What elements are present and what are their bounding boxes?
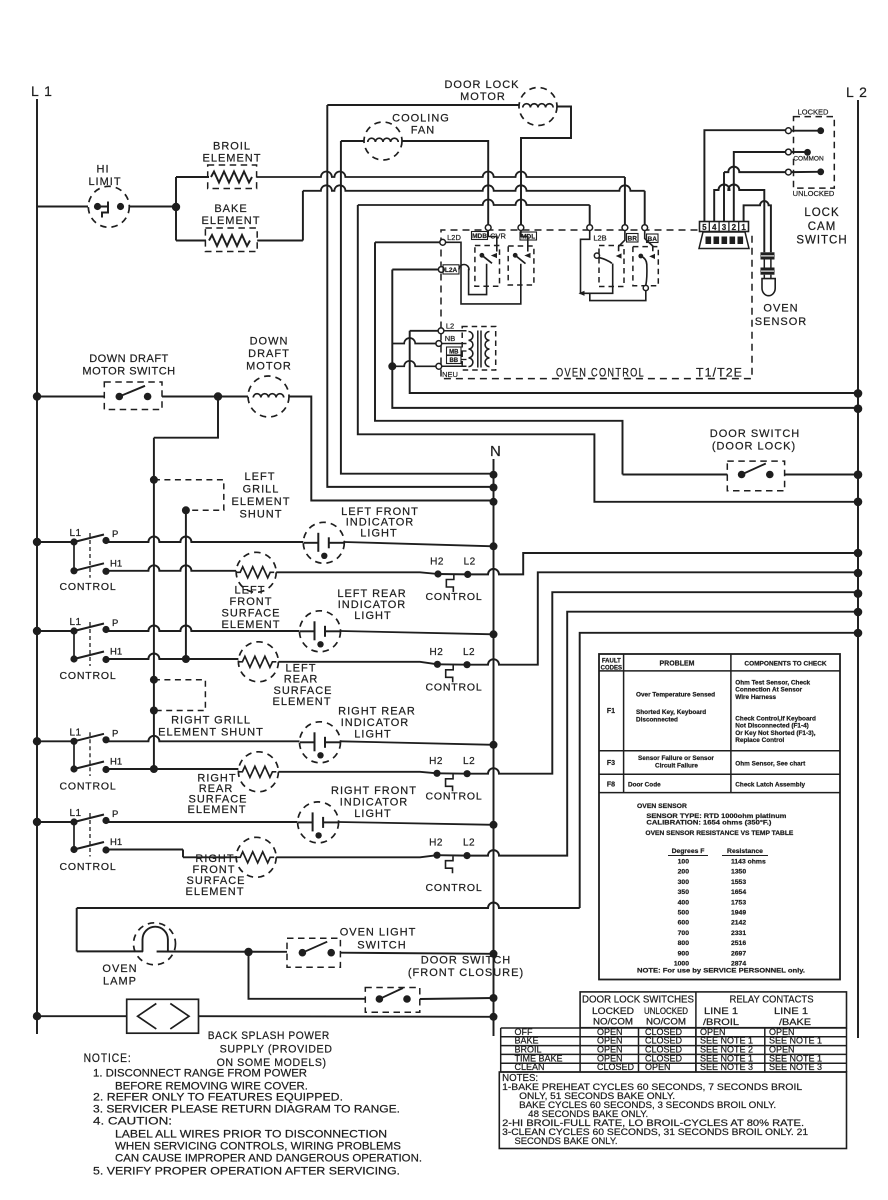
- svg-text:Door Code: Door Code: [628, 782, 661, 789]
- svg-text:MOTOR: MOTOR: [246, 361, 292, 373]
- svg-text:Wire Harness: Wire Harness: [735, 694, 776, 701]
- svg-text:Replace Control: Replace Control: [735, 737, 784, 744]
- svg-text:H1: H1: [110, 647, 122, 658]
- svg-text:NOTE: For use by SERVICE PERS: NOTE: For use by SERVICE PERSONNEL only.: [637, 968, 805, 975]
- svg-text:Check Control,if Keyboard: Check Control,if Keyboard: [735, 715, 816, 722]
- svg-text:LAMP: LAMP: [103, 976, 137, 988]
- svg-text:ELEMENT: ELEMENT: [232, 496, 291, 508]
- svg-text:CONTROL: CONTROL: [60, 780, 117, 792]
- svg-text:UNLOCKED: UNLOCKED: [793, 189, 835, 198]
- svg-text:ELEMENT: ELEMENT: [202, 215, 261, 227]
- svg-text:RIGHT FRONT: RIGHT FRONT: [331, 785, 417, 797]
- svg-text:CONTROL: CONTROL: [426, 882, 483, 894]
- svg-text:COMMON: COMMON: [793, 156, 824, 163]
- svg-text:LEFT: LEFT: [245, 471, 276, 483]
- svg-text:1: 1: [741, 223, 746, 232]
- svg-text:L2B: L2B: [593, 234, 606, 243]
- svg-text:BAKE: BAKE: [214, 203, 247, 215]
- svg-text:1350: 1350: [731, 869, 746, 876]
- svg-text:L2: L2: [464, 557, 476, 568]
- svg-text:1753: 1753: [731, 899, 746, 906]
- svg-text:700: 700: [678, 930, 690, 937]
- svg-text:DOOR LOCK SWITCHES: DOOR LOCK SWITCHES: [582, 995, 694, 1006]
- svg-text:LABEL ALL WIRES PRIOR TO DISCO: LABEL ALL WIRES PRIOR TO DISCONNECTION: [115, 1129, 387, 1141]
- svg-text:OVEN: OVEN: [102, 963, 137, 975]
- svg-text:1. DISCONNECT RANGE FROM POWER: 1. DISCONNECT RANGE FROM POWER: [93, 1068, 307, 1080]
- svg-text:4. CAUTION:: 4. CAUTION:: [93, 1116, 172, 1128]
- svg-text:DOWN DRAFT: DOWN DRAFT: [89, 353, 169, 365]
- svg-text:SHUNT: SHUNT: [240, 509, 283, 521]
- svg-text:DOOR SWITCH: DOOR SWITCH: [710, 428, 800, 440]
- svg-text:Resistance: Resistance: [727, 848, 763, 855]
- svg-text:SEE NOTE 3: SEE NOTE 3: [700, 1062, 753, 1072]
- svg-text:Or Key Not Shorted (F1-3),: Or Key Not Shorted (F1-3),: [735, 730, 815, 737]
- svg-text:L 1: L 1: [31, 83, 53, 99]
- svg-text:F8: F8: [607, 782, 615, 789]
- svg-text:CONTROL: CONTROL: [60, 861, 117, 873]
- svg-text:N: N: [490, 443, 501, 460]
- svg-text:LOCKED: LOCKED: [592, 1006, 635, 1016]
- svg-text:P: P: [112, 618, 118, 629]
- svg-text:CODES: CODES: [601, 665, 622, 671]
- svg-text:2142: 2142: [731, 920, 746, 927]
- svg-text:L2: L2: [446, 322, 454, 331]
- svg-text:/BAKE: /BAKE: [779, 1017, 811, 1027]
- svg-text:Not Disconnected (F1-4): Not Disconnected (F1-4): [735, 723, 809, 730]
- svg-text:F1: F1: [607, 708, 615, 715]
- svg-text:SUPPLY (PROVIDED: SUPPLY (PROVIDED: [220, 1044, 333, 1056]
- svg-text:LIMIT: LIMIT: [88, 176, 121, 188]
- svg-text:P: P: [112, 529, 118, 540]
- svg-text:COOLING: COOLING: [392, 113, 450, 125]
- svg-text:L2D: L2D: [447, 233, 461, 242]
- svg-text:NOTICE:: NOTICE:: [84, 1053, 132, 1065]
- svg-text:UNLOCKED: UNLOCKED: [644, 1006, 688, 1016]
- svg-text:H2: H2: [430, 647, 444, 658]
- svg-text:P: P: [112, 809, 118, 820]
- svg-text:Circuit Failure: Circuit Failure: [655, 762, 698, 769]
- svg-text:(DOOR LOCK): (DOOR LOCK): [712, 441, 796, 453]
- svg-text:NEU: NEU: [442, 370, 458, 379]
- svg-text:LEFT: LEFT: [235, 585, 266, 597]
- svg-text:ELEMENT: ELEMENT: [222, 619, 281, 631]
- svg-text:1654: 1654: [731, 889, 746, 896]
- svg-text:LIGHT: LIGHT: [360, 528, 397, 540]
- svg-text:NB: NB: [445, 334, 455, 343]
- svg-text:600: 600: [678, 920, 690, 927]
- svg-text:RIGHT REAR: RIGHT REAR: [338, 706, 416, 718]
- svg-text:350: 350: [678, 889, 690, 896]
- svg-text:PROBLEM: PROBLEM: [660, 661, 695, 668]
- svg-text:4: 4: [712, 223, 717, 232]
- svg-text:NO/COM: NO/COM: [593, 1017, 633, 1027]
- svg-text:L2: L2: [463, 838, 475, 849]
- svg-text:H1: H1: [110, 558, 122, 569]
- svg-text:LIGHT: LIGHT: [354, 610, 391, 622]
- svg-text:Degrees F: Degrees F: [672, 848, 705, 855]
- svg-text:LOCKED: LOCKED: [798, 108, 829, 117]
- svg-text:1000: 1000: [674, 961, 689, 968]
- svg-text:L1: L1: [70, 617, 82, 628]
- svg-text:INDICATOR: INDICATOR: [341, 717, 410, 729]
- svg-text:LIGHT: LIGHT: [354, 808, 391, 820]
- svg-text:Sensor Failure or Sensor: Sensor Failure or Sensor: [638, 755, 715, 762]
- svg-text:H1: H1: [110, 757, 122, 768]
- svg-text:L1: L1: [70, 528, 82, 539]
- svg-text:SECONDS BAKE ONLY.: SECONDS BAKE ONLY.: [515, 1136, 618, 1147]
- svg-text:L1: L1: [70, 727, 82, 738]
- svg-text:2. REFER ONLY TO FEATURES EQUI: 2. REFER ONLY TO FEATURES EQUIPPED.: [93, 1092, 343, 1104]
- svg-text:CONTROL: CONTROL: [426, 681, 483, 693]
- svg-text:ELEMENT: ELEMENT: [186, 886, 245, 898]
- svg-text:2331: 2331: [731, 930, 746, 937]
- svg-text:WHEN SERVICING CONTROLS, WIRIN: WHEN SERVICING CONTROLS, WIRING PROBLEMS: [115, 1141, 401, 1153]
- svg-text:2874: 2874: [731, 961, 746, 968]
- svg-text:LIGHT: LIGHT: [354, 729, 391, 741]
- svg-text:NO/COM: NO/COM: [646, 1017, 686, 1027]
- svg-text:F3: F3: [607, 760, 615, 767]
- svg-text:HI: HI: [97, 164, 110, 176]
- svg-text:Connection At Sensor: Connection At Sensor: [735, 687, 802, 694]
- svg-text:2516: 2516: [731, 940, 746, 947]
- svg-text:5: 5: [702, 223, 707, 232]
- svg-text:MOTOR: MOTOR: [460, 91, 506, 103]
- svg-text:CLOSED: CLOSED: [597, 1062, 635, 1072]
- svg-text:ELEMENT: ELEMENT: [203, 153, 262, 165]
- svg-text:900: 900: [678, 950, 690, 957]
- svg-text:L2: L2: [463, 756, 475, 767]
- svg-text:COMPONENTS TO CHECK: COMPONENTS TO CHECK: [744, 661, 827, 668]
- svg-text:CONTROL: CONTROL: [60, 581, 117, 593]
- svg-text:T1/T2E: T1/T2E: [696, 368, 743, 380]
- svg-text:GRILL: GRILL: [243, 484, 280, 496]
- svg-text:OVEN SENSOR: OVEN SENSOR: [637, 803, 687, 810]
- svg-text:1553: 1553: [731, 879, 746, 886]
- svg-text:OVEN: OVEN: [763, 303, 798, 315]
- svg-text:Check Latch Assembly: Check Latch Assembly: [735, 782, 805, 789]
- svg-text:H1: H1: [110, 837, 122, 848]
- svg-text:SENSOR: SENSOR: [755, 316, 807, 328]
- svg-text:ELEMENT: ELEMENT: [273, 696, 332, 708]
- svg-text:L2: L2: [463, 647, 475, 658]
- svg-text:SWITCH: SWITCH: [796, 235, 847, 247]
- svg-text:(FRONT CLOSURE): (FRONT CLOSURE): [408, 967, 524, 979]
- svg-text:DRAFT: DRAFT: [248, 348, 290, 360]
- svg-text:P: P: [112, 728, 118, 739]
- svg-text:SWITCH: SWITCH: [357, 940, 406, 952]
- svg-text:OPEN: OPEN: [645, 1062, 671, 1072]
- svg-text:OVEN SENSOR RESISTANCE VS TEMP: OVEN SENSOR RESISTANCE VS TEMP TABLE: [645, 830, 793, 837]
- svg-text:1143 ohms: 1143 ohms: [731, 859, 766, 866]
- svg-text:3: 3: [722, 223, 727, 232]
- svg-text:REAR: REAR: [284, 674, 319, 686]
- svg-text:CONTROL: CONTROL: [60, 670, 117, 682]
- svg-text:CLEAN: CLEAN: [515, 1062, 545, 1072]
- svg-text:200: 200: [678, 869, 690, 876]
- svg-text:MDB: MDB: [472, 233, 487, 240]
- svg-text:RELAY CONTACTS: RELAY CONTACTS: [730, 995, 814, 1006]
- svg-text:Disconnected: Disconnected: [636, 716, 678, 723]
- svg-text:L 2: L 2: [846, 84, 868, 100]
- svg-text:ELEMENT: ELEMENT: [188, 804, 247, 816]
- svg-text:FAN: FAN: [411, 125, 435, 137]
- svg-text:FRONT: FRONT: [230, 596, 273, 608]
- svg-text:BR: BR: [628, 236, 638, 243]
- svg-text:FAULT: FAULT: [602, 659, 621, 665]
- svg-text:1949: 1949: [731, 910, 746, 917]
- svg-text:DOWN: DOWN: [250, 336, 289, 348]
- svg-text:CALIBRATION: 1654 ohms (350°F: CALIBRATION: 1654 ohms (350°F.): [646, 819, 771, 827]
- svg-text:100: 100: [678, 859, 690, 866]
- svg-text:MOTOR SWITCH: MOTOR SWITCH: [82, 366, 175, 378]
- svg-text:LINE 1: LINE 1: [704, 1006, 738, 1016]
- svg-text:H2: H2: [430, 557, 444, 568]
- svg-text:3. SERVICER PLEASE RETURN DIAG: 3. SERVICER PLEASE RETURN DIAGRAM TO RAN…: [93, 1104, 400, 1116]
- svg-text:LOCK: LOCK: [804, 207, 839, 219]
- svg-text:DOOR LOCK: DOOR LOCK: [444, 79, 519, 91]
- svg-text:CONTROL: CONTROL: [426, 790, 483, 802]
- svg-text:L1: L1: [70, 808, 82, 819]
- svg-text:CAN CAUSE IMPROPER AND DANGERO: CAN CAUSE IMPROPER AND DANGEROUS OPERATI…: [115, 1153, 422, 1165]
- svg-text:INDICATOR: INDICATOR: [340, 797, 409, 809]
- svg-text:2697: 2697: [731, 950, 746, 957]
- svg-text:CONTROL: CONTROL: [426, 591, 483, 603]
- svg-text:BACK SPLASH POWER: BACK SPLASH POWER: [208, 1030, 330, 1042]
- svg-text:L2A: L2A: [445, 267, 458, 274]
- svg-text:800: 800: [678, 940, 690, 947]
- svg-text:5. VERIFY PROPER OPERATION AFT: 5. VERIFY PROPER OPERATION AFTER SERVICI…: [93, 1166, 400, 1178]
- svg-text:Ohm Test Sensor, Check: Ohm Test Sensor, Check: [735, 679, 810, 686]
- svg-text:DOOR SWITCH: DOOR SWITCH: [421, 955, 511, 967]
- svg-text:Over Temperature Sensed: Over Temperature Sensed: [636, 692, 715, 699]
- svg-text:SURFACE: SURFACE: [222, 608, 281, 620]
- svg-text:SEE NOTE 3: SEE NOTE 3: [769, 1062, 822, 1072]
- svg-text:Ohm Sensor, See chart: Ohm Sensor, See chart: [735, 760, 806, 767]
- svg-text:BROIL: BROIL: [213, 141, 251, 153]
- svg-text:OVEN CONTROL: OVEN CONTROL: [556, 368, 645, 380]
- svg-text:ELEMENT SHUNT: ELEMENT SHUNT: [158, 727, 264, 739]
- svg-text:/BROIL: /BROIL: [703, 1017, 739, 1027]
- svg-text:LINE 1: LINE 1: [774, 1006, 808, 1016]
- svg-text:RIGHT GRILL: RIGHT GRILL: [171, 715, 251, 727]
- svg-text:500: 500: [678, 910, 690, 917]
- svg-text:BB: BB: [449, 358, 458, 364]
- svg-text:OVEN LIGHT: OVEN LIGHT: [340, 927, 417, 939]
- svg-text:2: 2: [732, 223, 737, 232]
- svg-text:400: 400: [678, 899, 690, 906]
- svg-text:MB: MB: [449, 350, 459, 356]
- svg-text:300: 300: [678, 879, 690, 886]
- svg-text:CAM: CAM: [808, 221, 837, 233]
- svg-text:H2: H2: [429, 838, 443, 849]
- svg-text:Shorted Key, Keyboard: Shorted Key, Keyboard: [636, 709, 706, 716]
- svg-text:H2: H2: [429, 756, 443, 767]
